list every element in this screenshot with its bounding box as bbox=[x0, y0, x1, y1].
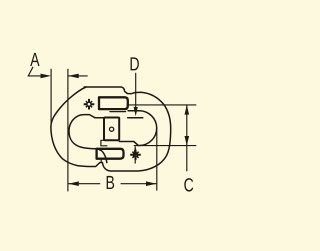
dim B line right segment bbox=[121, 183, 157, 185]
left inner opening (horseshoe) bbox=[69, 115, 107, 163]
label C bbox=[184, 178, 193, 191]
top slot rectangle (tongue window) bbox=[99, 97, 128, 109]
arrowhead A right bbox=[68, 74, 79, 79]
label A bbox=[30, 53, 39, 66]
dim bottom middle arrow line bbox=[134, 146, 136, 163]
arrowhead C up bbox=[185, 105, 190, 115]
left half outer bow bbox=[51, 87, 100, 167]
right inner opening (horseshoe) bbox=[119, 111, 156, 146]
arrowhead middle up bbox=[133, 146, 138, 155]
dim B right extension bbox=[156, 129, 158, 191]
inner pocket edge (D target) bbox=[128, 117, 143, 119]
label B bbox=[107, 176, 114, 189]
dim C vertical line bbox=[186, 105, 188, 171]
bottom seam drop bbox=[100, 160, 102, 163]
weld sun-star upper left bbox=[84, 99, 95, 110]
left half crown and top seam bbox=[84, 87, 127, 94]
arrowhead A left bbox=[41, 74, 52, 79]
bottom lug notch bbox=[101, 140, 107, 146]
dim C bottom extension bbox=[134, 145, 197, 147]
dim A leader bbox=[28, 67, 41, 76]
label D bbox=[131, 57, 139, 70]
weld sun-star lower right bbox=[130, 150, 141, 161]
dim B line left segment bbox=[68, 183, 100, 185]
dim A extension line left bbox=[50, 69, 52, 124]
dim A/B shared extension line bbox=[67, 69, 69, 192]
bottom slot rectangle (tongue window) bbox=[97, 149, 124, 159]
arrowhead B left bbox=[68, 181, 79, 186]
dim A right arrow tail bbox=[68, 75, 88, 77]
top tongue under-edge bbox=[110, 111, 126, 113]
pin block bbox=[104, 118, 119, 141]
right half outer bow and crown bbox=[100, 92, 171, 171]
arrowhead C down bbox=[185, 136, 190, 146]
arrowhead D down bbox=[134, 107, 138, 116]
dim C top extension bbox=[127, 104, 197, 106]
dim D leader bbox=[135, 73, 137, 112]
pin hole bbox=[110, 127, 114, 131]
arrowhead B right bbox=[146, 181, 157, 186]
